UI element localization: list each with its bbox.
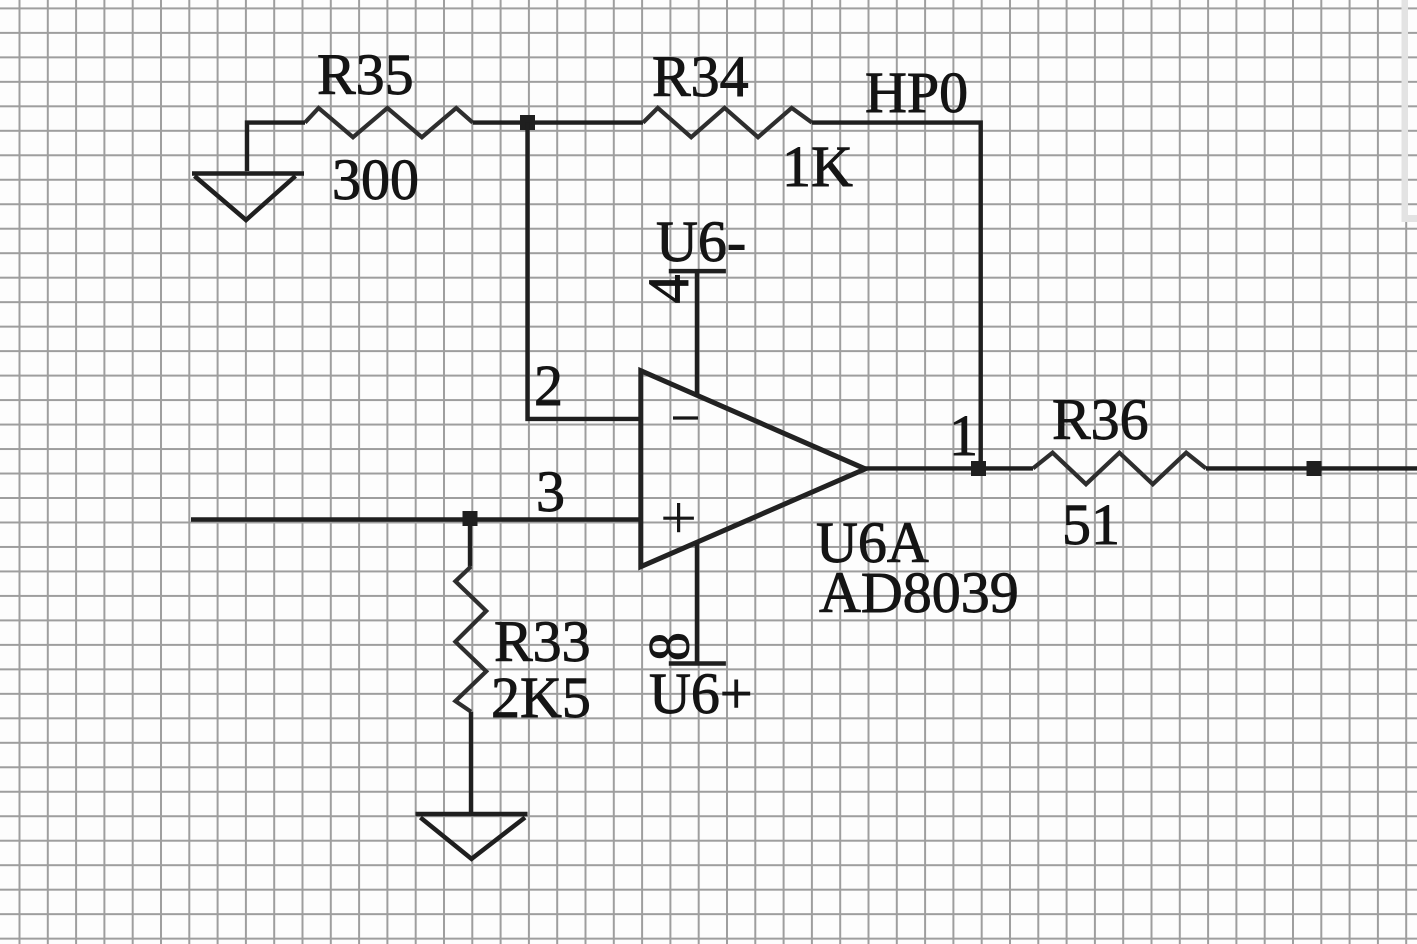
svg-text:2K5: 2K5 [491, 665, 591, 730]
resistor R33 [455, 567, 486, 712]
junction node B [463, 511, 478, 526]
junction node C [1307, 461, 1322, 476]
junction node A [520, 115, 535, 130]
wire feedback to inverting input [528, 123, 642, 419]
ground GND2 (under R33) [416, 814, 528, 859]
svg-text:AD8039: AD8039 [819, 560, 1019, 625]
wire R36 right lead [1206, 466, 1417, 470]
resistor R36 [1033, 453, 1206, 485]
wire pin 8 [695, 542, 700, 664]
svg-text:R35: R35 [317, 42, 414, 107]
svg-text:8: 8 [637, 632, 702, 661]
svg-text:R36: R36 [1052, 387, 1149, 452]
svg-text:1: 1 [949, 403, 978, 468]
wire R35 left lead to ground [247, 123, 305, 171]
wire pin 4 [695, 271, 700, 397]
svg-text:R34: R34 [652, 44, 749, 109]
pin 4 power bar [669, 269, 726, 274]
svg-text:51: 51 [1062, 492, 1120, 557]
svg-text:U6+: U6+ [649, 661, 753, 726]
wire R33 top lead [468, 520, 472, 567]
ground GND1 (left, under R35) [192, 174, 304, 221]
wire R33 bottom lead [469, 712, 473, 812]
svg-text:U6-: U6- [656, 209, 746, 274]
wire non-inverting input [191, 517, 641, 521]
op-amp U6A triangle [641, 371, 866, 567]
svg-text:3: 3 [536, 459, 565, 524]
junction output node [971, 461, 986, 476]
resistor R35 [305, 108, 473, 137]
resistor R34 [643, 108, 812, 137]
svg-text:HP0: HP0 [865, 60, 968, 125]
svg-text:4: 4 [636, 275, 701, 304]
svg-text:2: 2 [534, 353, 563, 418]
wire R34 right lead and feedback drop [812, 123, 981, 469]
inverting input marker [673, 416, 698, 419]
wire R35 right lead [473, 120, 643, 124]
non-inverting input marker [663, 503, 694, 532]
scan artifact strip (top right) [1402, 0, 1417, 222]
svg-text:1K: 1K [782, 134, 853, 199]
pin 8 power bar [669, 661, 726, 666]
svg-text:300: 300 [332, 147, 419, 212]
wire op-amp output [864, 466, 1033, 470]
